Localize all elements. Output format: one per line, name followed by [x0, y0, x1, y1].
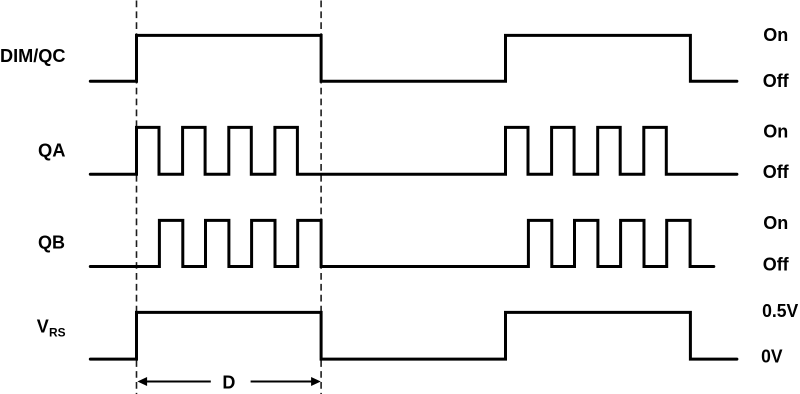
- dashed timeline marker t2: [320, 1, 322, 394]
- svg-text:On: On: [763, 25, 788, 45]
- svg-text:On: On: [763, 122, 788, 142]
- svg-text:0.5V: 0.5V: [762, 301, 798, 321]
- svg-text:QA: QA: [38, 141, 66, 161]
- dashed timeline marker t1: [136, 1, 138, 394]
- svg-text:V: V: [37, 316, 49, 336]
- svg-text:DIM/QC: DIM/QC: [0, 46, 66, 66]
- duty-cycle arrow left head: [137, 377, 147, 386]
- svg-text:Off: Off: [763, 254, 790, 274]
- svg-text:Off: Off: [763, 71, 790, 91]
- svg-text:D: D: [222, 373, 235, 393]
- svg-text:QB: QB: [38, 233, 65, 253]
- svg-text:On: On: [763, 213, 788, 233]
- svg-text:0V: 0V: [761, 347, 782, 367]
- duty-cycle arrow right shaft: [251, 381, 313, 383]
- svg-text:Off: Off: [763, 162, 790, 182]
- waveform DIM/QC: [90, 35, 737, 81]
- duty-cycle arrow left shaft: [146, 381, 211, 383]
- waveform QA: [90, 127, 737, 174]
- waveform QB: [90, 220, 714, 266]
- waveform VRS: [90, 312, 737, 359]
- duty-cycle arrow right head: [311, 377, 321, 386]
- svg-text:RS: RS: [49, 325, 66, 339]
